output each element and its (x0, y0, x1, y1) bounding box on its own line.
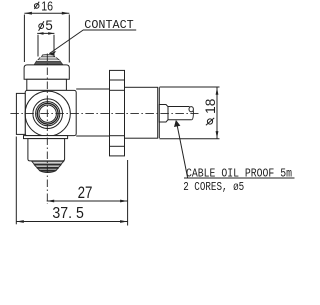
contact leader (83, 29, 136, 31)
dim 27 (47, 200, 128, 202)
bottom cap (28, 139, 65, 161)
svg-text:CONTACT: CONTACT (84, 18, 133, 32)
phi symbol for 16 (34, 2, 39, 9)
bottom washer plate (24, 136, 68, 139)
dim phi16 (24, 12, 69, 14)
svg-text:5: 5 (45, 18, 52, 33)
cylinder between block and flange (76, 88, 109, 90)
vertical centerline (46, 54, 48, 205)
svg-text:27: 27 (78, 184, 93, 202)
bottom dome shaded (32, 161, 64, 172)
dim 37.5 (16, 221, 127, 223)
dim phi5 (37, 32, 54, 34)
svg-text:2 CORES, ø5: 2 CORES, ø5 (183, 181, 244, 194)
phi18 rotated (206, 118, 214, 125)
cable leader (176, 122, 187, 178)
contact dome terraces (34, 55, 63, 65)
cable (168, 107, 192, 120)
dim phi18 (160, 86, 220, 88)
main block (25, 90, 76, 135)
horizontal centerline (10, 112, 198, 114)
svg-text:16: 16 (41, 0, 53, 13)
top cap (24, 65, 69, 79)
phi symbol for 5 (39, 21, 44, 31)
left plate (16, 93, 25, 134)
svg-text:18: 18 (203, 99, 218, 114)
step cylinder (159, 105, 168, 123)
svg-text:CABLE OIL PROOF 5m: CABLE OIL PROOF 5m (186, 168, 292, 181)
right body (125, 87, 158, 138)
circles (25, 91, 70, 136)
top neck (27, 79, 67, 90)
svg-text:37. 5: 37. 5 (52, 205, 84, 222)
flange (110, 70, 125, 155)
